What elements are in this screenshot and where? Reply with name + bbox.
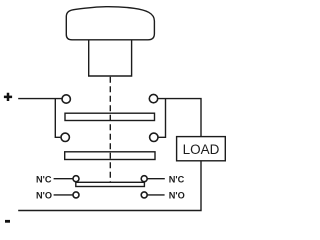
- svg-text:LOAD: LOAD: [183, 142, 220, 157]
- svg-text:N'O: N'O: [36, 191, 52, 201]
- svg-text:N'C: N'C: [36, 174, 52, 184]
- svg-text:N'C: N'C: [169, 174, 185, 184]
- svg-text:N'O: N'O: [169, 191, 185, 201]
